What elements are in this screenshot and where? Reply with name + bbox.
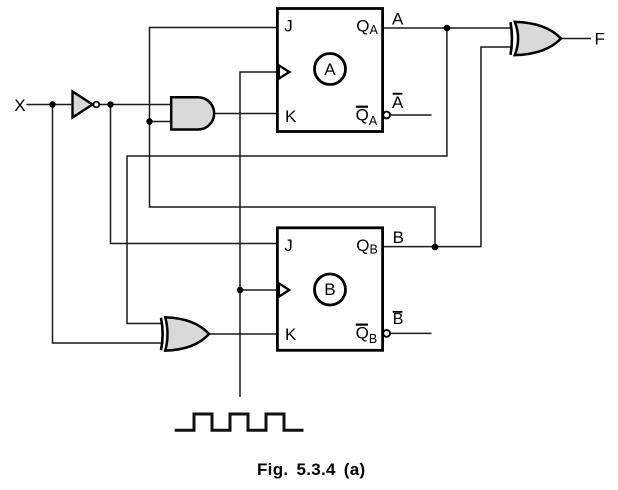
svg-text:K: K <box>285 107 297 126</box>
svg-text:A: A <box>324 60 336 79</box>
svg-text:B: B <box>324 280 335 299</box>
svg-text:B: B <box>393 311 404 328</box>
svg-text:Fig. 5.3.4 (a): Fig. 5.3.4 (a) <box>257 460 365 479</box>
svg-text:J: J <box>284 236 293 255</box>
svg-text:X: X <box>14 96 25 115</box>
svg-text:B: B <box>393 228 404 247</box>
svg-text:K: K <box>285 325 297 344</box>
svg-text:F: F <box>595 29 605 48</box>
svg-text:A: A <box>392 10 404 29</box>
svg-text:A: A <box>392 93 404 112</box>
svg-text:J: J <box>284 17 293 36</box>
